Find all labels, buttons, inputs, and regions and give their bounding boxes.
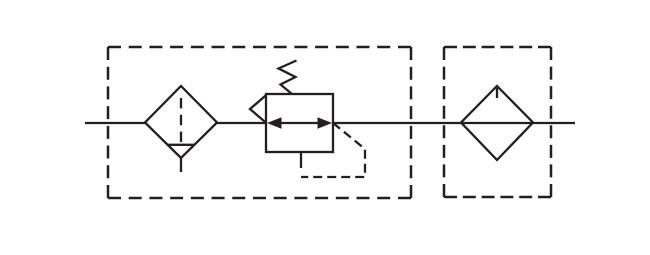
filter F1: diamond body xyxy=(145,86,217,158)
regulator R1: relief vent triangle xyxy=(250,95,266,123)
regulator R1: body box xyxy=(266,94,333,152)
right dashed enclosure (lubricator unit boundary) xyxy=(444,47,551,197)
wire: inlet line xyxy=(85,122,145,124)
filter F1: separator chord xyxy=(167,144,195,146)
regulator R1: internal double-arrow shaft xyxy=(279,122,321,124)
regulator R1: right arrowhead xyxy=(318,117,333,129)
left dashed enclosure (filter-regulator unit boundary) xyxy=(108,47,411,198)
regulator R1: dashed pilot feedback line xyxy=(301,123,365,177)
filter F1: dashed element line xyxy=(180,98,182,142)
regulator R1: bottom pilot stub xyxy=(300,152,302,168)
filter F1: drain stub xyxy=(180,158,182,172)
regulator R1: left arrowhead xyxy=(267,117,282,129)
wire: filter outlet to regulator inlet xyxy=(217,122,266,124)
lubricator L1: diamond body xyxy=(461,86,533,160)
wire: regulator outlet through lubricator to far right xyxy=(333,122,575,124)
lubricator L1: drip tick xyxy=(496,88,498,98)
regulator R1: adjustment spring xyxy=(279,61,297,95)
